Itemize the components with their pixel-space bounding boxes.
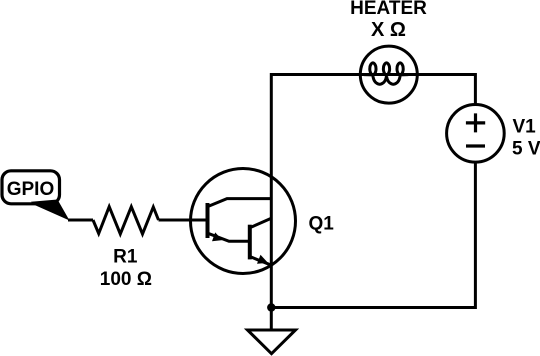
resistor R1 [93,207,159,234]
Q1 T2 emitter arrow [257,255,268,264]
wire GPIO to resistor [68,219,93,222]
wire resistor to Q1 base [159,219,207,222]
Q1 T2 emitter [250,257,271,266]
svg-text:R1: R1 [113,247,138,268]
V1 plus sign [466,113,485,132]
GPIO flag tail [31,200,70,221]
heater coil [364,63,408,84]
voltage source V1 [447,105,505,163]
svg-text:GPIO: GPIO [7,179,55,200]
transistor Q1 circle [191,169,296,274]
wire [271,75,475,308]
wire [270,308,273,331]
Q1 base bar T2 [248,225,252,260]
Q1 base bar T1 [206,203,210,238]
svg-text:HEATER: HEATER [350,0,427,19]
V1 minus sign [466,144,485,147]
wire [271,162,475,308]
svg-text:X Ω: X Ω [371,19,406,41]
svg-text:V1: V1 [513,116,537,137]
svg-text:Q1: Q1 [309,213,335,234]
ground [248,330,296,354]
svg-text:5 V: 5 V [512,138,540,159]
Q1 T1 emitter [208,233,250,241]
heater lamp L1 circle [360,46,417,103]
GPIO flag box [2,171,60,204]
node junction [267,303,275,311]
Q1 T1 collector [209,199,272,207]
Q1 T2 collector [251,218,271,227]
svg-text:100 Ω: 100 Ω [100,269,152,290]
Q1 T1 emitter arrow [212,232,222,241]
